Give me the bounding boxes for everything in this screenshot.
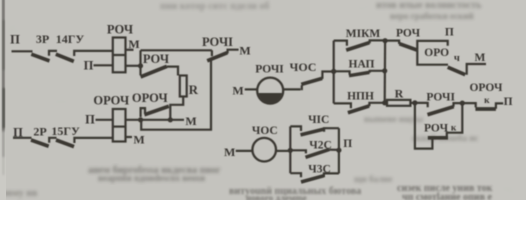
wire right bus of Ч contacts: [338, 128, 340, 173]
node П (bottom-left supply label): [13, 126, 23, 140]
contact РОЧ1 (top, to М): [202, 35, 233, 49]
svg-text:П: П: [445, 26, 454, 38]
svg-text:П: П: [84, 58, 94, 72]
node П stub: [445, 26, 454, 38]
svg-text:пни котор снтс пделн об: пни котор снтс пделн об: [160, 1, 269, 12]
svg-text:14ГУ: 14ГУ: [56, 32, 85, 46]
wire lower winding to node: [126, 65, 141, 67]
svg-text:ЧОС: ЧОС: [290, 60, 317, 74]
wire drop to ОРОч row: [417, 50, 448, 65]
contact ЧОС: [301, 85, 303, 90]
motor ЧОС (command symbol): [224, 145, 235, 159]
node junction: [383, 38, 388, 43]
svg-text:П: П: [343, 138, 352, 150]
svg-text:нтов иπые волнистость: нтов иπые волнистость: [376, 0, 482, 11]
svg-text:РОЧI: РОЧI: [202, 35, 233, 49]
node junction: [412, 100, 417, 105]
contact 2Р (blade): [31, 140, 49, 146]
contact ОРОЧ: [132, 91, 168, 105]
wire to resistor R: [167, 67, 178, 76]
svg-text:веро гработки еский: веро гработки еский: [390, 11, 474, 21]
svg-text:ОРОЧ: ОРОЧ: [93, 94, 129, 108]
node М stub: [474, 52, 485, 64]
svg-text:М: М: [232, 83, 243, 97]
wire М stub from top winding: [126, 49, 134, 51]
wire М line: [126, 119, 185, 121]
contact 3Р (blade): [31, 54, 49, 61]
svg-text:R: R: [189, 82, 199, 97]
contact 14ГУ (blade): [56, 54, 74, 61]
svg-text:М: М: [133, 132, 144, 146]
svg-text:РОЧ: РОЧ: [143, 52, 169, 66]
svg-text:ч: ч: [454, 53, 460, 64]
contact 15ГУ (blade): [56, 140, 74, 147]
wire: [13, 137, 32, 139]
contact ОРОЧк: [469, 82, 503, 94]
svg-text:новoro длемme: новoro длемme: [246, 193, 307, 200]
wire: [12, 50, 33, 52]
svg-text:2Р: 2Р: [33, 125, 46, 139]
resistor R (right): [395, 86, 404, 100]
svg-text:ЧОС: ЧОС: [252, 125, 278, 137]
node junction: [382, 68, 387, 73]
node junction: [288, 148, 293, 153]
wire right bus: [384, 41, 387, 103]
svg-text:П: П: [85, 113, 95, 127]
svg-text:ЧIС: ЧIС: [308, 114, 329, 126]
svg-text:ОРО: ОРО: [424, 47, 449, 59]
contact НАП: [349, 59, 375, 71]
svg-text:щи балне: щи балне: [354, 174, 392, 184]
coil РОЧ (two-winding box): [107, 23, 133, 37]
svg-text:овму нв: овму нв: [2, 188, 38, 199]
contact М1КМ: [346, 28, 381, 40]
contact РОЧ1 (right): [426, 92, 455, 104]
svg-text:15ГУ: 15ГУ: [51, 124, 80, 138]
wire left bus of Ч contacts: [289, 126, 291, 173]
contact 14ГУ terminal tick: [74, 51, 113, 56]
node junction: [382, 100, 387, 105]
node junction: [331, 69, 336, 74]
contact Ч3С: [308, 164, 331, 176]
contact ОРОч: [424, 47, 449, 59]
svg-text:РОЧI: РОЧI: [255, 64, 284, 76]
wire М stub lower winding: [126, 136, 133, 138]
svg-text:ОРОЧ: ОРОЧ: [132, 91, 168, 105]
node М label: [185, 114, 196, 128]
node П (top-left supply label): [10, 32, 20, 46]
resistor R: [180, 76, 187, 97]
svg-text:П: П: [10, 32, 20, 46]
wire riser: [139, 50, 141, 66]
wire hold-loop (drop from РОЧ1 blade down and left to node): [141, 59, 211, 130]
svg-text:3Р: 3Р: [36, 32, 49, 46]
contact РОЧ (top right): [396, 27, 421, 39]
motor РОЧ1 (servo symbol, half filled): [255, 64, 284, 76]
contact Ч1С: [308, 114, 329, 126]
node П feed of lower winding: [84, 58, 94, 72]
svg-text:РОЧ: РОЧ: [396, 27, 421, 39]
svg-text:М: М: [474, 52, 485, 64]
contact НПН: [347, 91, 374, 103]
svg-text:М: М: [185, 114, 196, 128]
node junction: [138, 63, 143, 68]
svg-text:ОРОЧ: ОРОЧ: [469, 82, 503, 94]
wire R bottom to М line: [170, 97, 183, 120]
contact 3Р terminal tick: [49, 51, 57, 56]
node junction: [138, 117, 143, 122]
svg-text:РОЧ: РОЧ: [424, 122, 449, 134]
node junction: [336, 148, 341, 153]
node П stub (right end): [504, 96, 513, 108]
coil ОРОЧ (two-winding box): [93, 94, 129, 108]
svg-text:М: М: [224, 145, 235, 159]
svg-text:веарпня пдпиdescnх веохи: веарпня пдпиdescnх веохи: [98, 173, 205, 183]
svg-text:НПН: НПН: [347, 91, 374, 103]
wire left bus of М1КМ/НАП/НПН: [333, 41, 335, 104]
svg-text:М: М: [239, 43, 250, 57]
svg-text:R: R: [395, 86, 404, 100]
svg-text:МIКМ: МIКМ: [346, 28, 381, 40]
contact РОЧк (bypass loop): [424, 122, 449, 134]
svg-text:чп смотlaние опив е: чп смотlaние опив е: [402, 192, 492, 200]
svg-text:РОЧ: РОЧ: [107, 23, 133, 37]
node П stub: [343, 138, 352, 150]
node П feed: [85, 113, 95, 127]
wire top rail: [141, 49, 212, 51]
node junction: [460, 101, 465, 106]
svg-text:НАП: НАП: [349, 59, 375, 71]
svg-text:М: М: [128, 37, 139, 51]
contact Ч2С: [309, 139, 332, 151]
svg-text:РОЧI: РОЧI: [426, 92, 455, 104]
svg-text:П: П: [504, 96, 513, 108]
node junction: [168, 117, 173, 122]
svg-text:к: к: [484, 96, 490, 106]
contact РОЧ (self-hold): [143, 52, 169, 66]
